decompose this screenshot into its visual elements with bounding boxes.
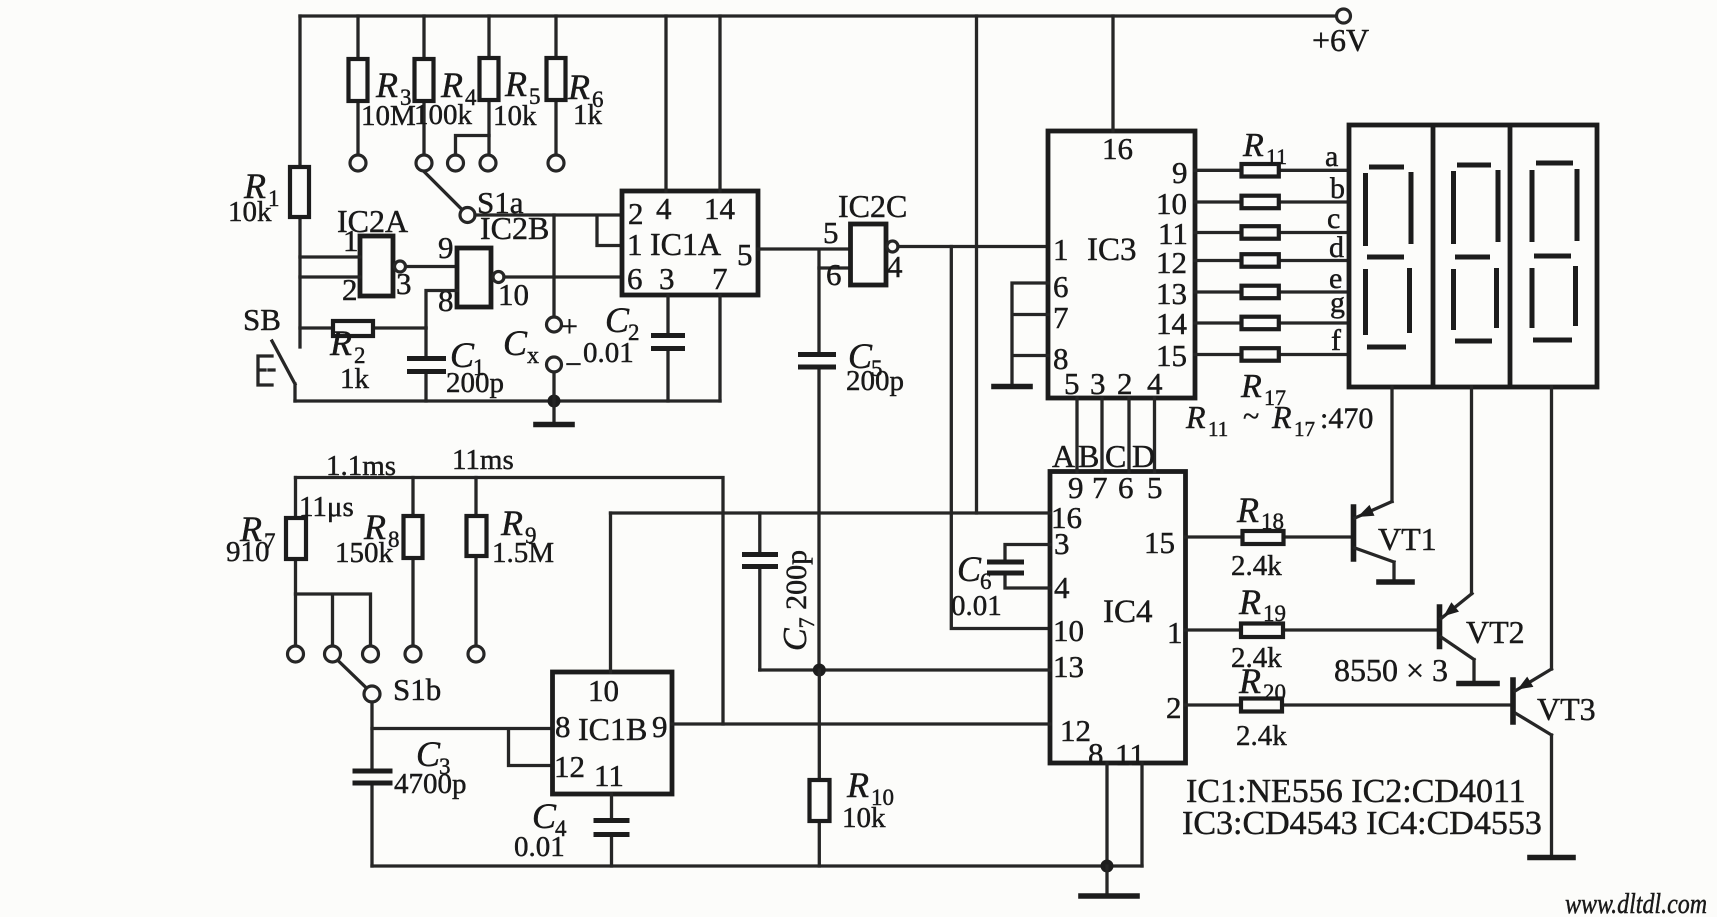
svg-text:b: b (1330, 172, 1345, 205)
svg-text:1: 1 (627, 227, 643, 262)
wire IC2C output to IC3 pin 1 (898, 245, 1048, 248)
svg-text:3: 3 (1054, 526, 1070, 561)
resistor R8 (335, 478, 423, 647)
svg-text:12: 12 (1060, 713, 1091, 748)
svg-text:10: 10 (588, 673, 619, 708)
svg-text:12: 12 (1156, 245, 1187, 280)
wire Cx minus to bottom rail (552, 372, 555, 401)
svg-text:12: 12 (554, 749, 585, 784)
svg-text:2.4k: 2.4k (1236, 720, 1287, 752)
timer IC1A (NE556 half) (622, 191, 758, 296)
resistor R2 (300, 321, 426, 395)
ground below Cx node (536, 401, 572, 425)
wire bottom rail of oscillator section (295, 399, 720, 402)
svg-text:2.4k: 2.4k (1231, 550, 1282, 582)
wire IC2A inputs from left rail (300, 257, 360, 277)
svg-text:3: 3 (659, 261, 675, 296)
svg-text:R: R (1236, 490, 1259, 530)
wire +6V top supply rail (300, 14, 1336, 17)
ground VT2 collector (1459, 681, 1497, 687)
gate IC2C (CD4011 NAND) (823, 188, 907, 292)
resistor R19 (1186, 582, 1440, 674)
svg-text:4700p: 4700p (394, 768, 467, 800)
svg-text:20: 20 (1263, 680, 1286, 705)
svg-text:8: 8 (438, 283, 454, 318)
wire jog linking R5 leg to third contact (456, 136, 490, 156)
wire IC3 pins 6 7 8 tied (1012, 283, 1048, 385)
svg-text:6: 6 (1053, 269, 1069, 304)
resistor R12 (1242, 196, 1279, 209)
capacitor C4 (514, 794, 630, 866)
svg-text:IC2B: IC2B (480, 210, 549, 246)
display module box three 7-segment digits (1349, 125, 1597, 387)
svg-text:6: 6 (627, 261, 643, 296)
svg-text:1.1ms: 1.1ms (326, 450, 396, 482)
svg-text:f: f (1331, 324, 1341, 357)
wire IC3 pin 9 segment line a (1195, 169, 1349, 172)
svg-text:11: 11 (1208, 417, 1228, 441)
wire IC1A pin 14 to supply rail (718, 16, 721, 191)
svg-text:IC2C: IC2C (838, 188, 907, 224)
svg-text:5: 5 (1064, 366, 1080, 401)
svg-text:1: 1 (1167, 615, 1183, 650)
wire ground rail bottom (372, 864, 1142, 867)
svg-text:C: C (1105, 438, 1126, 474)
svg-text:IC3: IC3 (1087, 232, 1137, 268)
wire IC4 pin 16 net from IC1B pin 10 (611, 511, 1051, 514)
svg-text:4: 4 (1147, 366, 1163, 401)
transistor VT2 (8550 PNP) (1440, 594, 1525, 683)
svg-text:R: R (1242, 127, 1264, 164)
svg-text:0.01: 0.01 (514, 831, 565, 863)
resistor R20 (1186, 661, 1514, 752)
svg-text:R: R (1238, 661, 1261, 701)
wire IC3 pin 16 to supply rail (1111, 16, 1114, 131)
svg-text:2: 2 (628, 196, 644, 231)
svg-text:11: 11 (1266, 144, 1287, 169)
svg-text:1.5M: 1.5M (492, 537, 554, 569)
ground VT1 collector (1379, 579, 1412, 585)
svg-text:18: 18 (1261, 509, 1284, 534)
svg-text:www.dltdl.com: www.dltdl.com (1565, 889, 1707, 917)
svg-text:0.01: 0.01 (583, 337, 634, 369)
svg-text:R: R (1271, 399, 1292, 435)
svg-text:C: C (503, 323, 528, 363)
svg-text:C: C (605, 300, 630, 340)
labels A B C D (1052, 438, 1155, 474)
svg-text:11μs: 11μs (299, 491, 354, 523)
svg-text:C: C (957, 549, 982, 589)
resistor R15 (1242, 286, 1279, 299)
svg-text:1: 1 (1053, 232, 1069, 267)
wire IC3 pin 15 segment line f (1195, 353, 1349, 356)
label IC part numbers (1182, 773, 1542, 842)
wire IC2B pin8 stub down to R2/C1 node (426, 291, 457, 329)
svg-text:8: 8 (1088, 736, 1104, 771)
wire S1b common to IC1B pins 8 and 12 (372, 702, 553, 766)
resistor R17 (1240, 348, 1286, 410)
svg-text:11ms: 11ms (452, 444, 514, 476)
svg-text:R: R (1238, 582, 1261, 622)
ground at IC3 pins 6-8 (994, 384, 1030, 390)
timer IC1B (NE556 half) (553, 672, 673, 794)
svg-text:8550 × 3: 8550 × 3 (1334, 652, 1448, 688)
wire +6V drop to IC4 pin16 net (975, 16, 978, 513)
svg-text:10: 10 (1053, 613, 1084, 648)
transistor VT1 (8550 PNP) (1354, 502, 1437, 581)
wire IC3 pin 11 segment line c (1195, 231, 1349, 234)
svg-text:150k: 150k (335, 537, 394, 569)
switch S1b arm and common (338, 661, 441, 708)
segment letter labels a b c d e g f (1325, 140, 1345, 357)
svg-text:7: 7 (712, 261, 728, 296)
pushbutton SB (243, 302, 295, 401)
decoder IC3 (CD4543) (1048, 131, 1195, 401)
wire IC2C output branch down to IC4 pin 10 (951, 247, 1050, 629)
svg-text:x: x (527, 343, 539, 369)
svg-text:0.01: 0.01 (951, 590, 1002, 622)
svg-text:~: ~ (1243, 400, 1259, 433)
svg-text:4: 4 (1054, 570, 1070, 605)
svg-text:16: 16 (1102, 131, 1133, 166)
resistor R6 (547, 16, 604, 155)
svg-text:C: C (532, 796, 557, 836)
svg-text:VT2: VT2 (1466, 614, 1525, 650)
svg-text:IC4: IC4 (1103, 594, 1153, 630)
svg-text:VT1: VT1 (1378, 521, 1437, 557)
wire IC1A pin 5 output to IC2C (758, 249, 850, 268)
wire digit2 common to VT2 (1470, 387, 1473, 594)
resistor R4 (414, 16, 477, 155)
svg-text:+: + (561, 310, 578, 343)
wire IC1A pin 4 to supply rail (664, 16, 667, 191)
svg-text:C7 200p: C7 200p (777, 550, 819, 651)
wire R7 branch to contacts 2 and 3 (296, 594, 371, 646)
transistor VT3 (8550 PNP) (1513, 669, 1596, 856)
resistor R1 (228, 166, 309, 228)
svg-text:10: 10 (498, 277, 529, 312)
svg-text:19: 19 (1263, 601, 1286, 626)
svg-text:9: 9 (438, 230, 454, 265)
svg-text:IC1A: IC1A (650, 226, 721, 262)
gate IC2A (CD4011 NAND) (337, 203, 412, 307)
svg-text:R: R (1185, 399, 1206, 435)
svg-text:IC3:CD4543 IC4:CD4553: IC3:CD4543 IC4:CD4553 (1182, 805, 1542, 842)
wire IC3 pin 12 segment line d (1195, 259, 1349, 262)
resistor R13 (1242, 226, 1279, 239)
svg-text:13: 13 (1053, 649, 1084, 684)
resistor R14 (1242, 254, 1279, 267)
svg-text:11: 11 (594, 758, 624, 793)
capacitor C7 (742, 513, 819, 670)
terminal Cx minus (547, 348, 582, 381)
7-segment digit 3 (1532, 163, 1577, 340)
svg-text:a: a (1325, 140, 1338, 173)
wire IC2B output to IC1A pin 6 (504, 275, 622, 278)
svg-text:1k: 1k (573, 99, 603, 131)
svg-text:4: 4 (887, 249, 903, 284)
ground below IC4 (1081, 866, 1137, 896)
svg-text:200p: 200p (846, 365, 904, 397)
wire left rail from +6V down to R1 and SB (298, 16, 301, 347)
resistor R3 (349, 16, 416, 155)
svg-text:7: 7 (1053, 300, 1069, 335)
svg-text:R: R (375, 65, 398, 105)
wire IC4 pin 13 line with junction to C5/R10 (760, 668, 1050, 671)
node junction C5 C7 R10 pin13 (813, 664, 826, 677)
resistor R5 (480, 16, 541, 155)
svg-text:14: 14 (704, 191, 736, 226)
wire IC4 pins 8 and 11 to ground rail (1107, 763, 1142, 866)
switch S1b selector contacts (288, 646, 485, 662)
switch S1a selector contacts (350, 155, 564, 171)
svg-text:R: R (329, 323, 352, 363)
capacitor C2 (583, 296, 685, 402)
svg-text:10k: 10k (228, 196, 272, 228)
7-segment digit 1 (1366, 167, 1412, 347)
svg-text:1: 1 (343, 223, 359, 258)
svg-text:D: D (1132, 438, 1155, 474)
svg-text:5: 5 (1147, 470, 1163, 505)
node junction at Cx minus (548, 395, 561, 408)
svg-text:+6V: +6V (1312, 22, 1369, 58)
capacitor C5 (798, 268, 904, 670)
svg-text:100k: 100k (414, 99, 473, 131)
wire IC2A output to IC2B input 9 (406, 265, 457, 268)
svg-text:B: B (1078, 438, 1099, 474)
svg-text::470: :470 (1320, 402, 1373, 435)
svg-text:1k: 1k (340, 363, 370, 395)
svg-text:−: − (565, 348, 582, 381)
wire IC3 pin 14 segment line g (1195, 321, 1349, 324)
svg-text:4: 4 (656, 191, 672, 226)
resistor R16 (1242, 317, 1279, 330)
7-segment digit 2 (1454, 165, 1499, 341)
capacitor C3 (353, 729, 467, 867)
wire IC1B pin 9 output to IC4 pin 12 (672, 722, 1050, 725)
capacitor Cx label (503, 323, 539, 369)
wire S1a line down to Cx plus terminal (552, 215, 555, 317)
svg-text:8: 8 (555, 709, 571, 744)
wire digit1 common to VT1 (1390, 387, 1393, 502)
svg-text:VT3: VT3 (1537, 691, 1596, 727)
resistor R9 (467, 478, 555, 647)
wire IC3 pin 13 segment line e (1195, 290, 1349, 293)
svg-text:9: 9 (1172, 155, 1188, 190)
wire IC1B pin 10 up to pin16 net (609, 513, 612, 672)
svg-text:g: g (1330, 286, 1345, 319)
svg-text:6: 6 (1118, 470, 1134, 505)
svg-text:R: R (504, 64, 527, 104)
capacitor C6 (951, 545, 1050, 623)
wire timing range rail 1.1ms/11ms (296, 444, 724, 724)
resistor R7 (226, 478, 354, 647)
svg-text:IC1B: IC1B (578, 711, 647, 747)
wire digit3 common to VT3 (1550, 387, 1553, 669)
switch S1a arm and common (425, 172, 524, 223)
ground VT3 collector (1530, 855, 1573, 861)
svg-text:6: 6 (826, 257, 842, 292)
svg-text:5: 5 (823, 215, 839, 250)
svg-text:5: 5 (737, 237, 753, 272)
svg-text:9: 9 (652, 709, 668, 744)
+6V supply terminal (1312, 9, 1369, 58)
resistor R18 (1186, 490, 1354, 582)
svg-text:A: A (1052, 438, 1075, 474)
gate IC2B (CD4011 NAND) (438, 210, 549, 318)
svg-text:200p: 200p (446, 367, 504, 399)
svg-text:10M: 10M (361, 100, 416, 132)
svg-text:2: 2 (1166, 690, 1182, 725)
svg-text:14: 14 (1156, 306, 1188, 341)
svg-text:10k: 10k (493, 100, 537, 132)
label 8550 x 3 (1334, 652, 1448, 688)
label R11 ~ R17 : 470 (1185, 399, 1373, 441)
wire IC1A pin 7 down to bottom rail (718, 296, 721, 402)
wire BCD lines IC3 to IC4 (1077, 398, 1155, 472)
svg-text:7: 7 (1092, 470, 1108, 505)
svg-text:S1b: S1b (393, 672, 441, 707)
wire S1a common to IC1A pins 2 and 1 (475, 215, 622, 246)
capacitor C1 (407, 328, 504, 401)
wire IC3 pin 10 segment line b (1195, 200, 1349, 203)
counter IC4 (CD4553) (1050, 470, 1186, 772)
svg-text:3: 3 (1090, 366, 1106, 401)
svg-text:2: 2 (1117, 366, 1133, 401)
svg-text:d: d (1329, 231, 1344, 264)
svg-text:10k: 10k (842, 802, 886, 834)
svg-text:17: 17 (1294, 417, 1315, 441)
svg-text:15: 15 (1144, 525, 1175, 560)
resistor R10 (810, 670, 895, 866)
resistor R11 (1242, 127, 1288, 177)
svg-text:R: R (846, 765, 869, 805)
label watermark (1565, 889, 1707, 917)
svg-text:SB: SB (243, 302, 281, 337)
svg-text:3: 3 (396, 266, 412, 301)
node junction IC4 pin8 ground (1101, 860, 1114, 873)
svg-text:910: 910 (226, 536, 270, 568)
terminal Cx plus (547, 310, 578, 343)
